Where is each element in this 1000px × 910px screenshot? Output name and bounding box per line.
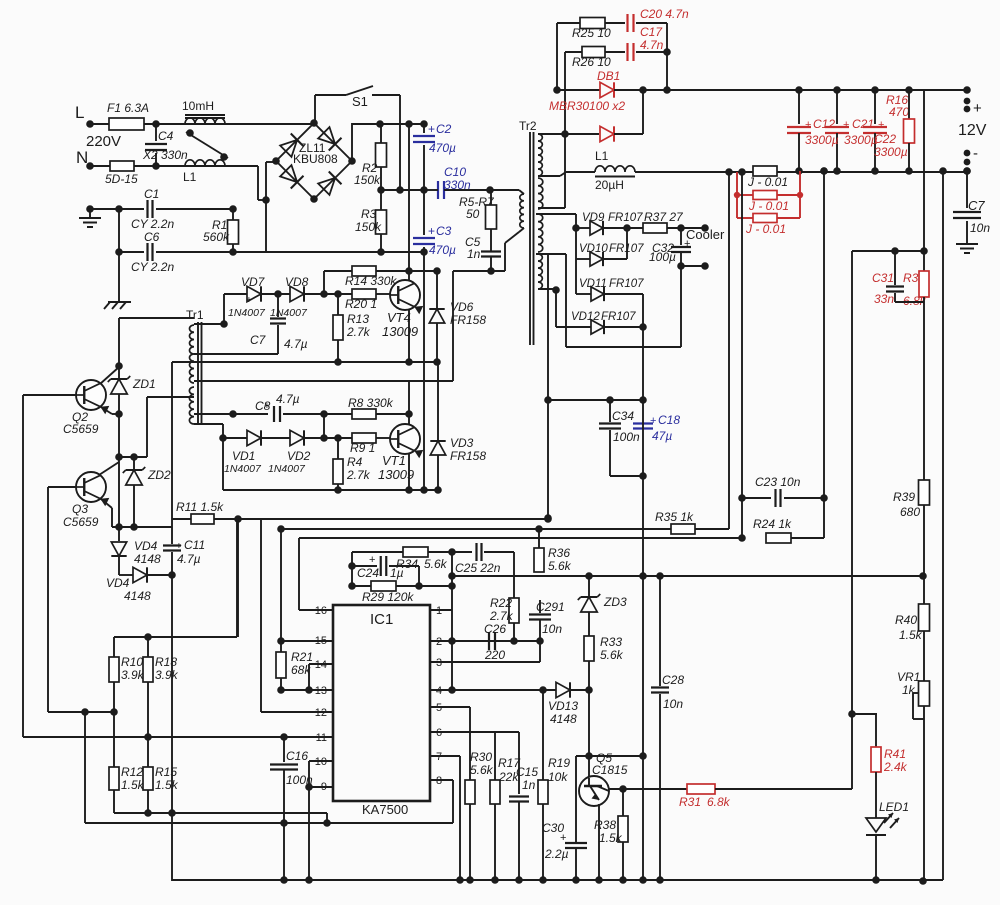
svg-text:4148: 4148 <box>134 552 161 566</box>
svg-text:C21: C21 <box>852 117 874 131</box>
svg-text:C17: C17 <box>640 25 663 39</box>
svg-text:+: + <box>805 119 811 131</box>
svg-text:470µ: 470µ <box>429 243 456 257</box>
svg-text:3.9k: 3.9k <box>121 668 145 682</box>
svg-text:47µ: 47µ <box>652 429 672 443</box>
svg-text:C28: C28 <box>662 673 684 687</box>
svg-text:5.6k: 5.6k <box>470 763 494 777</box>
svg-text:MBR30100 x2: MBR30100 x2 <box>549 99 625 113</box>
svg-text:4.7µ: 4.7µ <box>276 392 300 406</box>
svg-text:4: 4 <box>436 685 442 697</box>
svg-text:R40: R40 <box>895 613 917 627</box>
svg-text:3300µ: 3300µ <box>874 145 908 159</box>
svg-text:+: + <box>369 554 375 566</box>
svg-text:100n: 100n <box>613 430 640 444</box>
svg-text:FR107: FR107 <box>609 243 644 255</box>
svg-text:1n: 1n <box>522 778 536 792</box>
svg-text:2.7k: 2.7k <box>346 325 371 339</box>
svg-text:C4: C4 <box>158 129 174 143</box>
svg-text:C22: C22 <box>874 132 896 146</box>
svg-text:4148: 4148 <box>550 712 577 726</box>
svg-text:C34: C34 <box>612 409 634 423</box>
svg-text:150k: 150k <box>354 173 381 187</box>
svg-text:7: 7 <box>436 751 442 763</box>
svg-text:12V: 12V <box>958 122 987 139</box>
svg-text:VD4: VD4 <box>106 576 130 590</box>
svg-text:6: 6 <box>436 727 442 739</box>
svg-text:6.8k: 6.8k <box>707 795 731 809</box>
svg-text:R15: R15 <box>155 765 177 779</box>
svg-text:VD12: VD12 <box>571 311 600 323</box>
svg-text:FR158: FR158 <box>450 313 486 327</box>
svg-text:J - 0.01: J - 0.01 <box>747 175 788 189</box>
svg-text:5.6k: 5.6k <box>424 557 448 571</box>
svg-text:4.7µ: 4.7µ <box>177 552 201 566</box>
svg-text:C25 22n: C25 22n <box>455 561 501 575</box>
svg-text:2.2µ: 2.2µ <box>544 847 569 861</box>
svg-text:16: 16 <box>315 605 327 617</box>
svg-text:R4: R4 <box>347 455 363 469</box>
svg-text:J - 0.01: J - 0.01 <box>745 222 786 236</box>
svg-text:R12: R12 <box>121 765 143 779</box>
svg-text:220: 220 <box>484 648 505 662</box>
svg-text:1.5k: 1.5k <box>899 628 923 642</box>
svg-text:R30: R30 <box>470 750 492 764</box>
svg-text:C1815: C1815 <box>592 763 628 777</box>
svg-text:L: L <box>75 103 84 122</box>
svg-text:Q3: Q3 <box>72 502 88 516</box>
svg-text:N: N <box>76 148 88 167</box>
svg-text:C5659: C5659 <box>63 515 99 529</box>
svg-text:2.7k: 2.7k <box>346 468 371 482</box>
svg-text:R8 330k: R8 330k <box>348 396 394 410</box>
svg-text:VD9: VD9 <box>582 212 605 224</box>
svg-text:20µH: 20µH <box>595 178 624 192</box>
svg-text:R13: R13 <box>347 312 369 326</box>
svg-text:C6: C6 <box>144 230 160 244</box>
svg-text:FR107: FR107 <box>608 212 643 224</box>
svg-text:R35 1k: R35 1k <box>655 510 694 524</box>
svg-text:50: 50 <box>466 207 480 221</box>
svg-text:33n: 33n <box>874 292 894 306</box>
svg-text:R37 27: R37 27 <box>644 210 684 224</box>
svg-text:10: 10 <box>315 756 327 768</box>
svg-text:C24: C24 <box>357 566 379 580</box>
svg-text:+: + <box>246 295 252 306</box>
svg-text:R19: R19 <box>548 756 570 770</box>
svg-text:5.6k: 5.6k <box>600 648 624 662</box>
svg-text:R29 120k: R29 120k <box>362 590 414 604</box>
svg-text:R33: R33 <box>600 635 622 649</box>
svg-text:R36: R36 <box>548 546 570 560</box>
svg-text:3300µ: 3300µ <box>805 133 839 147</box>
svg-text:C7: C7 <box>968 198 985 213</box>
svg-text:1.5k: 1.5k <box>121 778 145 792</box>
svg-text:J - 0.01: J - 0.01 <box>748 199 789 213</box>
svg-text:14: 14 <box>315 659 327 671</box>
svg-text:R26 10: R26 10 <box>572 55 611 69</box>
svg-text:C5659: C5659 <box>63 422 99 436</box>
svg-text:L1: L1 <box>183 170 197 184</box>
svg-text:Tr2: Tr2 <box>519 119 537 133</box>
svg-text:R38: R38 <box>594 818 616 832</box>
svg-text:4148: 4148 <box>124 589 151 603</box>
svg-text:VD3: VD3 <box>450 436 474 450</box>
svg-text:13009: 13009 <box>378 467 414 482</box>
svg-text:C3: C3 <box>436 224 452 238</box>
svg-text:4.7µ: 4.7µ <box>284 337 308 351</box>
svg-text:R20 1: R20 1 <box>345 297 377 311</box>
svg-text:VD8: VD8 <box>285 275 309 289</box>
svg-text:VT1: VT1 <box>382 453 406 468</box>
svg-text:1N4007: 1N4007 <box>268 463 306 475</box>
svg-text:-: - <box>973 145 978 162</box>
svg-text:3300µ: 3300µ <box>844 133 878 147</box>
svg-text:IC1: IC1 <box>370 611 393 628</box>
svg-text:S1: S1 <box>352 94 368 109</box>
svg-text:LED1: LED1 <box>879 800 909 814</box>
svg-text:C26: C26 <box>484 622 506 636</box>
svg-text:C1: C1 <box>144 187 159 201</box>
svg-text:470: 470 <box>889 105 909 119</box>
svg-text:3: 3 <box>436 657 442 669</box>
svg-text:VD10: VD10 <box>579 243 608 255</box>
svg-text:L1: L1 <box>595 149 609 163</box>
svg-text:1.5k: 1.5k <box>599 831 623 845</box>
svg-text:3.9k: 3.9k <box>155 668 179 682</box>
svg-text:C31: C31 <box>872 271 894 285</box>
svg-text:C11: C11 <box>184 538 205 552</box>
svg-text:X2: X2 <box>142 148 158 162</box>
svg-text:13: 13 <box>315 685 327 697</box>
svg-text:8: 8 <box>436 775 442 787</box>
svg-text:+: + <box>878 119 884 131</box>
svg-text:VD13: VD13 <box>548 699 578 713</box>
svg-text:DB1: DB1 <box>597 69 620 83</box>
svg-text:C2: C2 <box>436 122 452 136</box>
svg-text:12: 12 <box>315 707 327 719</box>
svg-text:1N4007: 1N4007 <box>228 307 266 319</box>
svg-text:5.6k: 5.6k <box>548 559 572 573</box>
svg-text:KBU808: KBU808 <box>293 152 338 166</box>
svg-text:680: 680 <box>900 505 920 519</box>
svg-text:R41: R41 <box>884 747 906 761</box>
svg-text:+: + <box>684 238 690 250</box>
svg-text:150k: 150k <box>355 220 382 234</box>
svg-text:R10: R10 <box>121 655 143 669</box>
svg-text:R9 1: R9 1 <box>350 441 375 455</box>
svg-text:R21: R21 <box>291 650 313 664</box>
svg-text:C15: C15 <box>516 765 538 779</box>
svg-text:10n: 10n <box>970 221 990 235</box>
svg-text:560k: 560k <box>203 230 230 244</box>
svg-text:5: 5 <box>436 702 442 714</box>
svg-text:1: 1 <box>436 605 442 617</box>
svg-text:F1 6.3A: F1 6.3A <box>107 101 149 115</box>
svg-text:1n: 1n <box>467 247 481 261</box>
svg-text:ZD1: ZD1 <box>132 377 156 391</box>
svg-text:R24 1k: R24 1k <box>753 517 792 531</box>
svg-text:330n: 330n <box>444 178 471 192</box>
svg-text:R14 330k: R14 330k <box>345 274 397 288</box>
svg-text:4.7n: 4.7n <box>640 38 664 52</box>
svg-text:10k: 10k <box>548 770 568 784</box>
svg-text:FR107: FR107 <box>601 311 636 323</box>
svg-text:VR1: VR1 <box>897 670 920 684</box>
svg-text:VD1: VD1 <box>232 449 255 463</box>
svg-text:VD11: VD11 <box>579 278 607 290</box>
svg-text:FR158: FR158 <box>450 449 486 463</box>
svg-text:2: 2 <box>436 636 442 648</box>
svg-text:C12: C12 <box>813 117 835 131</box>
svg-text:220V: 220V <box>86 133 121 150</box>
svg-text:KA7500: KA7500 <box>362 802 408 817</box>
svg-text:R25 10: R25 10 <box>572 26 611 40</box>
svg-text:CY 2.2n: CY 2.2n <box>131 260 174 274</box>
svg-text:68k: 68k <box>291 663 311 677</box>
svg-text:5D-15: 5D-15 <box>105 172 138 186</box>
svg-text:330n: 330n <box>161 148 188 162</box>
svg-text:R39: R39 <box>893 490 915 504</box>
svg-text:1µ: 1µ <box>390 566 404 580</box>
svg-text:11: 11 <box>316 732 327 744</box>
svg-text:+: + <box>843 119 849 131</box>
svg-text:10mH: 10mH <box>182 99 214 113</box>
svg-text:+: + <box>973 100 982 117</box>
svg-text:C7: C7 <box>250 333 267 347</box>
svg-text:CY 2.2n: CY 2.2n <box>131 217 174 231</box>
svg-text:+: + <box>264 401 270 412</box>
svg-text:470µ: 470µ <box>429 141 456 155</box>
svg-text:13009: 13009 <box>382 324 418 339</box>
svg-text:R3: R3 <box>361 207 377 221</box>
svg-text:+: + <box>428 122 435 136</box>
svg-text:2.7k: 2.7k <box>489 609 514 623</box>
svg-text:VT4: VT4 <box>387 310 411 325</box>
svg-text:+: + <box>650 415 656 427</box>
svg-text:ZD2: ZD2 <box>147 468 171 482</box>
svg-text:2.4k: 2.4k <box>883 760 908 774</box>
svg-text:R31: R31 <box>679 795 701 809</box>
svg-text:C23 10n: C23 10n <box>755 475 801 489</box>
svg-text:R11 1.5k: R11 1.5k <box>176 500 224 514</box>
svg-text:C20 4.7n: C20 4.7n <box>640 7 689 21</box>
svg-text:1N4007: 1N4007 <box>270 307 308 319</box>
svg-text:1.5k: 1.5k <box>155 778 179 792</box>
svg-text:Cooler: Cooler <box>686 227 725 242</box>
svg-text:10n: 10n <box>663 697 683 711</box>
svg-text:VD2: VD2 <box>287 449 311 463</box>
svg-text:C10: C10 <box>444 165 466 179</box>
svg-text:VD7: VD7 <box>241 275 266 289</box>
svg-text:1N4007: 1N4007 <box>224 463 262 475</box>
svg-text:R22: R22 <box>490 596 512 610</box>
svg-text:+: + <box>428 224 435 238</box>
svg-text:+: + <box>560 832 566 844</box>
svg-text:R18: R18 <box>155 655 177 669</box>
svg-text:C16: C16 <box>286 749 308 763</box>
svg-text:Tr1: Tr1 <box>186 308 204 322</box>
svg-text:10n: 10n <box>542 622 562 636</box>
svg-text:VD4: VD4 <box>134 539 158 553</box>
svg-text:FR107: FR107 <box>609 278 644 290</box>
svg-text:100n: 100n <box>286 773 313 787</box>
svg-text:C18: C18 <box>658 413 680 427</box>
svg-text:ZD3: ZD3 <box>603 595 627 609</box>
